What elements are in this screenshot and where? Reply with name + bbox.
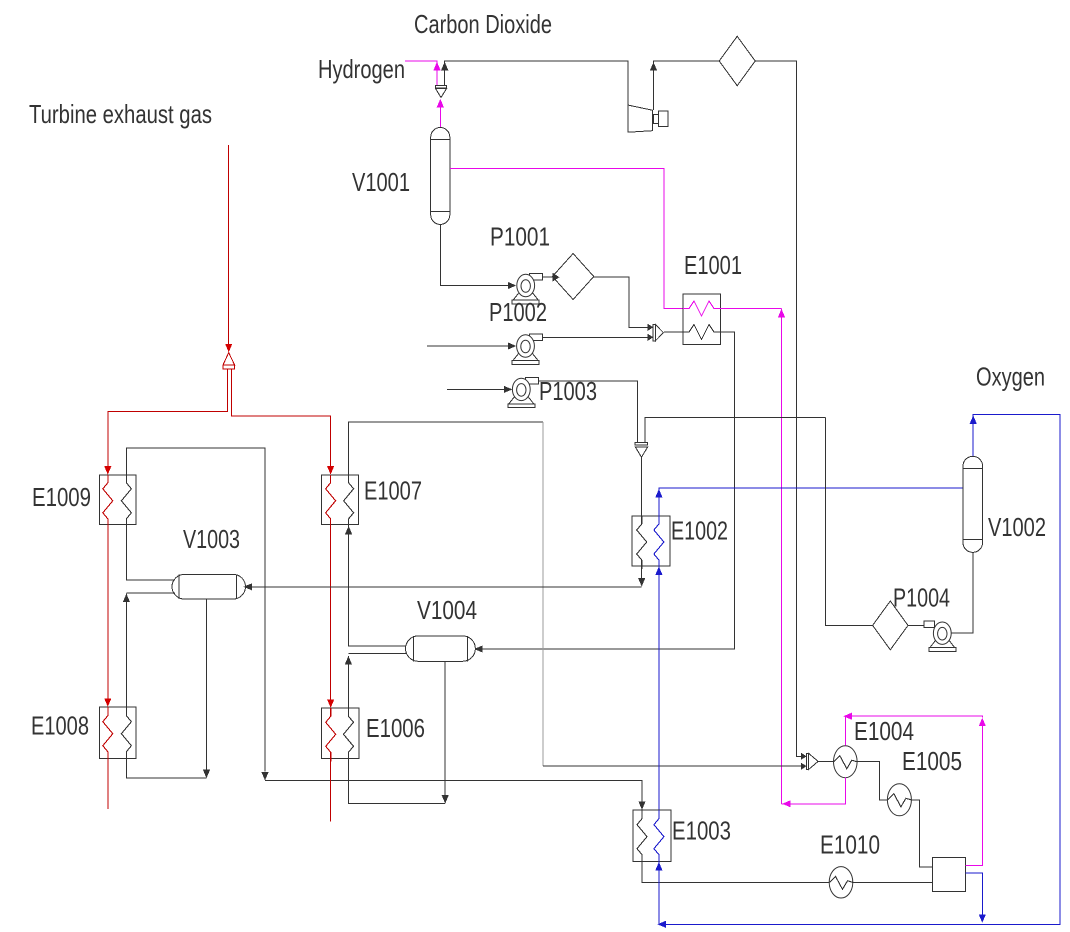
svg-text:V1003: V1003: [183, 524, 240, 554]
wire E1009 top loop: [126, 448, 265, 771]
wire V1002 bottoms to P1004: [952, 553, 974, 634]
arrow into P1003: [504, 386, 513, 393]
wire P1003 discharge to funnel: [539, 381, 637, 442]
coil E1006 hot (red): [326, 708, 336, 761]
arrow up E1008 return: [123, 594, 130, 603]
wire V1001 side draw (magenta): [450, 169, 683, 309]
wire E1004 to E1005: [857, 762, 887, 800]
svg-text:P1002: P1002: [489, 297, 547, 327]
coil E1006 cold (black): [344, 708, 354, 761]
heater E1004: [834, 746, 858, 778]
heater E1005: [887, 784, 911, 816]
coil E1007 hot (red): [326, 475, 336, 528]
svg-text:E1004: E1004: [854, 716, 914, 746]
svg-text:Turbine exhaust gas: Turbine exhaust gas: [29, 99, 212, 129]
arrow down red feed: [225, 344, 232, 353]
arrow up blue into E1002: [655, 566, 662, 575]
svg-text:E1010: E1010: [820, 830, 880, 860]
wire blue below E1003: [658, 870, 660, 925]
coil E1008 cold (black): [121, 707, 131, 761]
arrow up magenta riser: [778, 309, 785, 318]
svg-text:E1005: E1005: [902, 746, 962, 776]
coil E1003 left (black): [637, 810, 647, 865]
exchanger E1009 shell: [100, 475, 137, 525]
filter diamond D1: [719, 36, 755, 85]
pump P1002: [530, 334, 543, 341]
coil E1001 cold (black): [683, 325, 721, 340]
wire red below E1008: [107, 758, 109, 809]
svg-text:Carbon Dioxide: Carbon Dioxide: [414, 9, 552, 39]
filter diamond D2: [552, 254, 593, 300]
wire V1003 bottom loop: [206, 599, 208, 771]
wire E1001 magenta outlet: [721, 308, 782, 310]
heater E1010: [829, 867, 853, 898]
coil E1010: [830, 876, 853, 889]
svg-text:Oxygen: Oxygen: [976, 362, 1045, 392]
wire red below E1006: [330, 758, 332, 821]
arrow down into E1003: [638, 801, 645, 810]
wire E1008 riser: [125, 594, 127, 707]
wire D1 to mixer M2 (long vertical): [755, 61, 801, 756]
wire blue E1003 to E1002: [658, 573, 660, 810]
wire magenta top run: [846, 716, 983, 746]
wire compressor outlet: [654, 61, 720, 110]
compressor K1: [628, 105, 652, 132]
arrow red into E1009: [104, 466, 111, 475]
coil E1009 cold (black): [121, 475, 131, 528]
svg-text:V1002: V1002: [988, 512, 1046, 542]
wire V1004 bottoms to E1006: [349, 758, 446, 803]
wire E1002 bottoms drop: [641, 566, 643, 579]
exchanger E1006 shell: [322, 708, 360, 758]
svg-text:E1008: E1008: [31, 711, 89, 741]
wire x543 to mixer M2: [543, 765, 801, 767]
arrow red into E1008: [104, 698, 111, 707]
wire x265 to E1003: [265, 781, 642, 803]
arrow into D2: [552, 273, 559, 282]
wire P1001 discharge: [543, 276, 553, 278]
wire P1004 discharge to D3: [908, 624, 924, 626]
mixer M1 input arrows: [648, 324, 654, 331]
wire hydrogen product (magenta): [405, 61, 437, 86]
arrow down V1004 bottoms: [442, 795, 449, 804]
wire D3 riser to funnel line: [826, 418, 873, 626]
wire funnel to E1002: [641, 457, 643, 516]
wire CO2 vent riser (black): [445, 61, 628, 105]
arrow down x265: [261, 772, 268, 781]
svg-text:E1003: E1003: [672, 816, 731, 846]
coil E1002 left (black): [637, 516, 647, 569]
svg-text:V1001: V1001: [352, 167, 410, 197]
wire E1008 to V1003: [126, 592, 175, 594]
pump P1004: [924, 621, 935, 628]
arrow up E1006 return: [345, 656, 352, 665]
pump P1003: [525, 377, 538, 384]
arrow up into vent: [437, 99, 444, 108]
wire turbine exhaust (red): [228, 145, 230, 344]
wire oxygen product (blue): [664, 415, 1060, 925]
arrow down V1003 bottoms: [203, 770, 210, 779]
arrow into V1003: [244, 583, 253, 590]
arrow red into E1007: [327, 466, 334, 475]
wire magenta E1004 down: [789, 778, 846, 804]
wire M1 to E1001: [664, 331, 683, 333]
arrow left magenta corner: [843, 713, 852, 720]
wire E1010 to flash box: [853, 881, 933, 883]
arrow left magenta to riser: [782, 800, 791, 807]
mixer M2 input arrows: [801, 753, 807, 760]
arrow up hydrogen: [433, 62, 440, 71]
wire D2 to mixer M1 upper: [594, 277, 648, 327]
arrow left blue bottom: [658, 921, 667, 928]
svg-text:V1004: V1004: [417, 595, 477, 625]
coil E1008 hot (red): [103, 707, 113, 761]
filter diamond D3: [873, 601, 908, 650]
wire magenta riser x781: [781, 309, 783, 804]
vessel V1002: [963, 456, 983, 552]
arrow up magenta x982: [979, 718, 986, 727]
wire magenta recycle from flash box: [965, 725, 982, 866]
wire gray drop x543: [542, 422, 544, 766]
arrow down blue from box: [979, 914, 986, 923]
coil E1007 cold (black): [344, 475, 354, 528]
arrow up CO2: [441, 62, 448, 71]
wire V1003 feed: [250, 586, 642, 588]
pump P1001: [530, 274, 543, 281]
flash box B1: [933, 858, 966, 892]
wire blue from flash box: [965, 873, 982, 916]
svg-text:E1006: E1006: [366, 713, 425, 743]
wire red branch left: [108, 369, 228, 467]
arrow up blue above E1002: [655, 489, 662, 498]
wire magenta to riser: [782, 803, 790, 805]
svg-text:E1001: E1001: [684, 250, 742, 280]
wire red branch right: [232, 369, 331, 467]
svg-text:E1002: E1002: [671, 516, 728, 546]
vessel V1004: [406, 636, 476, 661]
wire V1004 bottom loop: [444, 661, 446, 796]
coil E1002 right (blue): [654, 516, 664, 569]
wire V1001 bottoms to P1001: [440, 224, 509, 285]
arrow into P1002: [508, 342, 517, 349]
exchanger E1001 shell: [683, 294, 721, 345]
coil E1001 hot (magenta): [683, 301, 721, 316]
wire E1006 to V1004: [348, 652, 406, 654]
coil E1003 right (blue): [654, 810, 664, 865]
coil E1009 hot (red): [103, 475, 113, 528]
exchanger E1008 shell: [99, 707, 136, 758]
arrow into V1004: [474, 645, 483, 652]
wire V1003 bottoms to E1008: [126, 758, 206, 778]
splitter symbol (red): [223, 353, 235, 366]
wire E1007 bottom to V1004: [349, 526, 406, 646]
svg-text:Hydrogen: Hydrogen: [318, 54, 405, 84]
wire E1005 to flash box: [912, 800, 933, 867]
mixer M1 cone: [653, 325, 655, 341]
svg-text:P1001: P1001: [490, 222, 550, 252]
exchanger E1007 shell: [321, 475, 358, 525]
funnel mixer M3: [635, 442, 648, 445]
mixer M2 cone: [807, 753, 809, 769]
valve vent V1001 top: [435, 86, 446, 89]
wire P1002 discharge to mixer M1: [542, 336, 648, 338]
arrow up blue into E1003: [655, 862, 662, 871]
arrow into P1001: [508, 282, 517, 289]
wire P1002 suction: [427, 345, 509, 347]
arrow up oxygen: [970, 415, 977, 424]
wire E1001 black outlet to V1004: [481, 332, 735, 649]
svg-text:E1009: E1009: [32, 482, 91, 512]
wire M2 to E1004: [818, 760, 833, 762]
arrow red into E1006: [327, 699, 334, 708]
svg-text:P1004: P1004: [893, 583, 950, 613]
svg-text:E1007: E1007: [364, 476, 422, 506]
vessel V1003: [172, 574, 245, 599]
arrow up into E1007: [345, 526, 352, 535]
arrow down E1002 bottoms: [638, 578, 645, 587]
wire E1006 riser: [347, 656, 349, 708]
wire recycle to funnel: [645, 418, 825, 443]
wire red below E1007: [330, 525, 332, 700]
exchanger E1003 shell: [633, 810, 671, 862]
wire red below E1009: [107, 525, 109, 699]
wire E1009 to V1003: [126, 525, 175, 581]
coil E1004: [834, 756, 857, 769]
exchanger E1002 shell: [632, 516, 670, 566]
arrow up compressor outlet: [650, 62, 657, 71]
wire P1003 suction: [447, 388, 505, 390]
coil E1005: [888, 794, 911, 807]
vessel V1001: [431, 128, 450, 225]
wire V1001 overhead (magenta): [439, 108, 441, 128]
wire E1003 black bottom to E1010: [642, 861, 829, 882]
wire E1007 top to gray drop: [349, 422, 543, 475]
wire blue E1002 to V1002: [659, 488, 964, 516]
